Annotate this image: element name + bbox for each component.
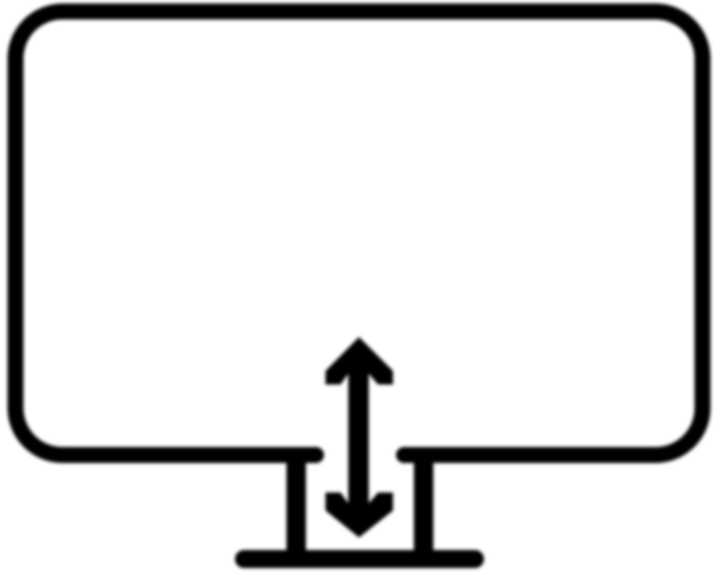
- monitor outline: [16, 12, 703, 456]
- stand base bar: [244, 550, 475, 568]
- stand right post: [414, 452, 434, 562]
- stand left post: [286, 452, 306, 562]
- double-headed arrow: [326, 337, 394, 538]
